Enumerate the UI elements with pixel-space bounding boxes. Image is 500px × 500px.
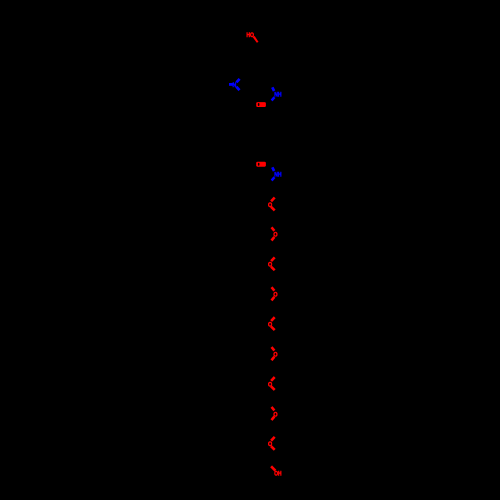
hydroxyl label HO (quinine C9-OH) — [246, 32, 254, 39]
amide 2 wedge bond to N — [272, 167, 274, 171]
PEG ether O 6 (right) — [272, 347, 278, 360]
amine N label — [233, 82, 237, 89]
wedge bond C9-O — [253, 36, 259, 43]
PEG ether O 8 (right) — [272, 407, 278, 420]
amine N bond down-right — [236, 87, 239, 91]
amide 1 N-C bond — [272, 97, 275, 100]
svg-text:OH: OH — [274, 470, 281, 477]
PEG ether O 5 (left) — [268, 317, 275, 330]
amine N bond up-right — [236, 79, 239, 83]
svg-text:NH: NH — [274, 92, 281, 99]
PEG ether O 9 (left) — [268, 437, 275, 450]
PEG ether O 1 (left) — [268, 198, 275, 211]
amine N (quinuclidine) bond left — [229, 83, 233, 86]
PEG ether O 4 (right) — [272, 287, 278, 300]
carbonyl O 2 (label O + double bond) — [256, 162, 266, 167]
svg-text:HO: HO — [246, 32, 254, 39]
PEG ether O 3 (left) — [268, 257, 275, 270]
amide 2 NH label — [274, 172, 281, 179]
amide 1 wedge bond to N — [272, 87, 274, 91]
carbonyl O 1 (label O + double bond) — [256, 102, 266, 107]
svg-text:NH: NH — [274, 172, 281, 179]
PEG ether O 2 (right) — [272, 227, 278, 240]
terminal OH bond — [271, 466, 275, 470]
PEG ether O 7 (left) — [268, 377, 275, 390]
amide 2 N-C bond — [272, 177, 275, 180]
terminal OH label — [274, 470, 281, 477]
amide 1 NH label — [274, 92, 281, 99]
